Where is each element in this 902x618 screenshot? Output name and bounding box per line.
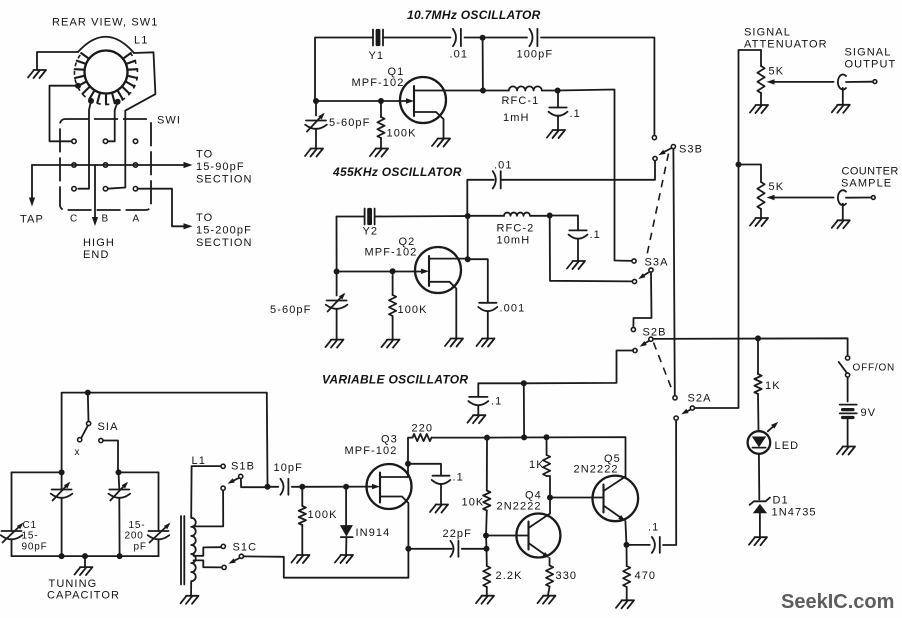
linkage S3B-S3A dashed [647, 154, 669, 258]
wire Q3 source [380, 497, 408, 550]
ground 2.2K [476, 596, 494, 604]
svg-text:LED: LED [775, 440, 800, 452]
svg-text:10mH: 10mH [497, 235, 531, 247]
capacitor 10pF [268, 486, 279, 488]
svg-text:.01: .01 [494, 160, 513, 172]
wire L1 bottom to ground [190, 581, 192, 595]
svg-text:100pF: 100pF [517, 49, 554, 61]
wire TAP down [31, 165, 33, 200]
ground 100K (10.7MHz) [370, 149, 388, 157]
svg-text:15-: 15- [22, 531, 39, 542]
svg-text:5K: 5K [769, 181, 785, 193]
wire Q2 gate row [337, 217, 424, 272]
ground battery [837, 447, 855, 455]
svg-text:9V: 9V [861, 407, 877, 419]
svg-text:SECTION: SECTION [196, 237, 253, 249]
wire Q4 base [486, 535, 529, 537]
svg-text:REAR VIEW, SW1: REAR VIEW, SW1 [52, 17, 158, 29]
junction 10K top [484, 435, 490, 441]
junction attenuator rail [736, 162, 742, 168]
svg-text:HIGH: HIGH [83, 237, 115, 249]
svg-text:SIGNAL: SIGNAL [744, 27, 791, 39]
wire Q5 base [550, 497, 604, 499]
ground COUNTER SAMPLE jack [832, 220, 850, 228]
junction supply rail / 1K LED branch [755, 335, 761, 341]
ground L1 [181, 596, 199, 604]
svg-text:.1: .1 [491, 396, 502, 408]
wire Y2 row [337, 216, 468, 260]
svg-text:OUTPUT: OUTPUT [845, 59, 897, 71]
junction drain row / top rail branch [480, 88, 486, 94]
svg-text:S2B: S2B [643, 327, 667, 339]
svg-text:455KHz OSCILLATOR: 455KHz OSCILLATOR [332, 165, 462, 179]
Q1 gate arrow [406, 98, 414, 103]
svg-text:CAPACITOR: CAPACITOR [47, 590, 120, 602]
capacitor 15-200pF (right edge) [158, 472, 160, 531]
svg-text:Q3: Q3 [381, 434, 398, 446]
ground .001 [477, 339, 495, 347]
svg-text:.1: .1 [648, 522, 659, 534]
junction 10pF node [265, 484, 271, 490]
wire Q2 source to ground [429, 282, 456, 338]
capacitor 22pF [408, 548, 451, 550]
arrow to 15-90pF section [184, 162, 193, 168]
svg-text:D1: D1 [773, 495, 789, 507]
junction Q4 base node [483, 533, 489, 539]
ground SIGNAL OUTPUT jack [832, 105, 850, 113]
wire Q1 drain [414, 90, 483, 92]
junction IN914 [343, 484, 349, 490]
potentiometer 5K (signal) [760, 50, 762, 66]
wire S2B pivot to battery rail [653, 338, 848, 356]
switch S3B [652, 136, 656, 140]
wire L1 tap3 to S1C contact [194, 560, 222, 567]
battery 9V [847, 377, 849, 401]
ground 100K (455KHz) [382, 340, 400, 348]
wire Q1 gate row [315, 100, 408, 102]
svg-text:1K: 1K [765, 380, 781, 392]
svg-text:10K: 10K [462, 497, 485, 509]
switch box SW1 outline [60, 119, 151, 210]
junction bottom mid [82, 553, 88, 559]
Q3 gate arrow [372, 484, 380, 489]
svg-text:2N2222: 2N2222 [497, 501, 542, 513]
junction bottom right [117, 553, 123, 559]
Q5 collector [604, 477, 626, 492]
junction toroid tap3 [115, 99, 121, 105]
svg-text:15-90pF: 15-90pF [196, 161, 245, 173]
ground Q1 source [432, 139, 450, 147]
ground .1 (455KHz) [567, 261, 585, 269]
svg-text:x: x [75, 447, 81, 458]
svg-text:TAP: TAP [20, 214, 44, 226]
svg-text:SAMPLE: SAMPLE [841, 178, 892, 190]
wire S1C pivot feedback to Q3 source [243, 552, 408, 578]
wire tank top rail [62, 393, 268, 485]
svg-text:200: 200 [125, 531, 144, 542]
wire tank bottom rail [12, 555, 159, 557]
crystal Y2 [364, 209, 366, 225]
svg-text:1N4735: 1N4735 [772, 507, 817, 519]
junction 22pF node [484, 546, 490, 552]
capacitor .01 (10.7MHz) [453, 29, 456, 46]
resistor 100K (VFO) [301, 487, 303, 506]
wire S2A lower contact to Q5 output cap [663, 420, 676, 545]
svg-text:TO: TO [196, 212, 213, 224]
junction Q1 gate / 5-60pF [313, 98, 319, 104]
linkage S2B-S2A dashed [654, 343, 673, 392]
wire S2A pivot to attenuator rail [694, 50, 761, 408]
inductor RFC-2 10mH [468, 215, 504, 217]
junction Q4 collector / Q5 base [547, 495, 553, 501]
wire S3B pivot to S2A upper contact [673, 149, 674, 396]
svg-text:TUNING: TUNING [49, 578, 98, 590]
transistor Q3 MPF-102 [367, 464, 412, 509]
inductor L1 (VFO) [180, 516, 182, 585]
junction tank top / S1A [85, 390, 91, 396]
svg-text:100K: 100K [398, 304, 428, 316]
svg-text:470: 470 [635, 570, 657, 582]
svg-text:Y2: Y2 [363, 226, 379, 238]
ground .1 VFO supply [468, 415, 486, 423]
junction 100K VFO [299, 484, 305, 490]
transistor Q1 MPF-102 [400, 77, 446, 123]
resistor 220 [413, 434, 432, 441]
svg-text:1K: 1K [529, 459, 545, 471]
capacitor .1 (10.7MHz bypass) [557, 91, 559, 108]
junction toroid tap2 [88, 98, 94, 104]
junction Y2 row / .01 branch [465, 213, 471, 219]
capacitor .1 (Q3 drain) [408, 464, 441, 476]
svg-text:SECTION: SECTION [196, 174, 253, 186]
junction Q1 gate / 100K [378, 98, 384, 104]
ground .1 (10.7MHz) [547, 130, 565, 138]
svg-text:S2A: S2A [688, 393, 712, 405]
capacitor 100pF [529, 29, 532, 46]
junction mid rail left [59, 469, 65, 475]
wire toroid tap to SW1 C row1 [50, 86, 79, 142]
ground Q2 source [445, 339, 463, 347]
wire supply row to amp rail [523, 383, 525, 437]
svg-text:.01: .01 [450, 49, 469, 61]
ground tank [84, 556, 86, 567]
svg-text:22pF: 22pF [443, 528, 472, 540]
svg-text:15-: 15- [129, 520, 146, 531]
transistor Q4 2N2222 [516, 514, 560, 558]
junction Q2 gate / 100K [390, 268, 396, 274]
wire A row3 to 15-200pF arrow [138, 189, 185, 227]
svg-text:VARIABLE OSCILLATOR: VARIABLE OSCILLATOR [322, 373, 468, 387]
wire S2B lower contact to VFO supply [478, 351, 633, 397]
wire top rail 10.7MHz [315, 38, 654, 136]
SW1 contacts grid [72, 139, 76, 143]
wire tank mid rail left [12, 471, 62, 473]
inductor L1 toroid [74, 37, 137, 105]
switch S2B [631, 327, 635, 331]
variable capacitor section A (x=62) [61, 472, 63, 489]
resistor 2.2K [486, 549, 488, 566]
ground D1 [749, 537, 767, 545]
junction RFC-1 / .1 branch [555, 88, 561, 94]
svg-text:RFC-1: RFC-1 [502, 95, 540, 107]
resistor 470 [626, 545, 628, 566]
wire HIGH END down [94, 165, 96, 219]
jack SIGNAL OUTPUT [838, 75, 846, 90]
svg-text:15-200pF: 15-200pF [196, 225, 252, 237]
ground 5K signal pot [750, 105, 768, 113]
ground 5-60pF (455KHz) [326, 340, 344, 348]
transistor Q2 MPF-102 [415, 247, 461, 293]
svg-text:10pF: 10pF [274, 462, 303, 474]
wire toroid left to ground [37, 52, 78, 69]
arrow HIGH END [92, 217, 98, 226]
wire toroid right lead to SW1 B row3 [108, 52, 156, 188]
arrow to 15-200pF section [184, 223, 193, 229]
svg-text:END: END [83, 249, 110, 261]
transistor Q5 2N2222 [593, 476, 639, 522]
svg-text:220: 220 [412, 423, 434, 435]
capacitor .001 [468, 259, 488, 303]
switch S3A [632, 259, 636, 263]
variable capacitor section B (x=119.6) [118, 472, 121, 489]
junction Q2 gate / 5-60pF [334, 269, 340, 275]
wire RFC-1 output to S3A line [558, 90, 632, 261]
wire amplifier rail [487, 437, 626, 476]
svg-text:COUNTER: COUNTER [842, 166, 899, 178]
svg-text:MPF-102: MPF-102 [345, 445, 398, 457]
svg-text:100K: 100K [387, 128, 417, 140]
svg-text:5-60pF: 5-60pF [270, 304, 311, 316]
svg-text:5K: 5K [769, 66, 785, 78]
svg-text:.1: .1 [570, 108, 581, 120]
junction bottom left [59, 553, 65, 559]
wire Q2 drain [429, 258, 468, 260]
resistor 10K [486, 438, 488, 491]
ground 5K counter pot [750, 218, 768, 226]
Q4 collector [529, 498, 551, 529]
resistor 1K (LED) [757, 338, 759, 374]
ground IN914 [335, 555, 353, 563]
wire LED to zener [758, 454, 760, 500]
wire Q3 gate row [302, 486, 374, 488]
svg-text:MPF-102: MPF-102 [352, 77, 405, 89]
wire base-22pF link [485, 536, 488, 549]
resistor 1K (Q4) [546, 437, 548, 455]
switch S2A [673, 396, 677, 400]
svg-text:IN914: IN914 [356, 527, 391, 539]
wire 455 output to S3A contact [550, 216, 633, 282]
ground 470 [616, 600, 634, 608]
svg-text:90pF: 90pF [22, 542, 48, 553]
wire L1 tap2 to S1C [194, 547, 222, 556]
wire Q1 source to ground [414, 112, 444, 138]
switch OFF/ON [846, 356, 850, 360]
Q5 emitter [604, 506, 624, 520]
svg-text:10.7MHz OSCILLATOR: 10.7MHz OSCILLATOR [407, 8, 541, 22]
svg-text:.001: .001 [500, 303, 526, 315]
svg-text:OFF/ON: OFF/ON [853, 363, 896, 374]
switch S1B [221, 464, 225, 468]
junction supply row [521, 380, 527, 386]
wire 455 output row .01 [467, 161, 655, 217]
capacitor .1 (455KHz bypass) [550, 216, 578, 231]
variable capacitor 5-60pF (455KHz) [336, 272, 338, 296]
junction Q3 source node [405, 546, 411, 552]
wire TAP row through contacts to 15-90pF arrow [32, 164, 185, 166]
svg-text:1mH: 1mH [503, 112, 530, 124]
wiper arrow 5K counter [772, 197, 834, 199]
svg-text:2N2222: 2N2222 [574, 464, 619, 476]
svg-text:A: A [133, 214, 140, 225]
ground 330 [538, 596, 556, 604]
junction rail-left [521, 434, 527, 440]
wire S1B contact to L1 tap1 [195, 490, 224, 526]
Q4 emitter [529, 543, 548, 557]
wire L1 top to S1B [191, 466, 221, 518]
junction Q5 emitter node [624, 542, 630, 548]
junction RFC-2 output [547, 213, 553, 219]
potentiometer 5K (counter) [739, 165, 762, 183]
switch S1A [87, 393, 90, 422]
jack COUNTER SAMPLE [838, 190, 846, 205]
svg-text:B: B [102, 214, 109, 225]
wiper arrow 5K signal [772, 81, 834, 83]
junction Q2 drain / .001 branch [465, 256, 471, 262]
svg-text:S3B: S3B [679, 144, 703, 156]
resistor 330 [546, 566, 553, 587]
svg-text:330: 330 [556, 570, 578, 582]
LED [748, 431, 771, 454]
zener diode D1 1N4735 [750, 498, 770, 505]
capacitor .01 (455KHz) [493, 171, 496, 188]
svg-text:pF: pF [134, 542, 147, 553]
resistor 100K (455KHz) [392, 271, 394, 295]
arrow TAP [29, 198, 35, 207]
junction rail-1K [544, 434, 550, 440]
wire S3A pivot to S2B upper contact [633, 272, 651, 327]
junction mid rail right [116, 469, 122, 475]
svg-text:SIGNAL: SIGNAL [845, 47, 892, 59]
svg-text:S3A: S3A [645, 257, 669, 269]
svg-text:L1: L1 [192, 455, 206, 467]
svg-text:Y1: Y1 [369, 50, 385, 62]
switch S1C [221, 544, 225, 548]
svg-text:S1B: S1B [231, 461, 255, 473]
variable capacitor 5-60pF (10.7MHz) [315, 101, 317, 116]
svg-text:SeekIC.com: SeekIC.com [781, 591, 894, 613]
crystal Y1 [372, 30, 374, 46]
ground 100K VFO [292, 555, 310, 563]
wire tank mid rail right [118, 471, 159, 473]
svg-text:C: C [70, 214, 78, 225]
svg-text:2.2K: 2.2K [496, 570, 523, 582]
wire toroid tap2 to SW1 C row3 [78, 101, 91, 189]
diode IN914 [345, 487, 347, 525]
resistor 100K (10.7MHz) [380, 101, 382, 117]
ground .1 Q3 [430, 505, 448, 513]
svg-text:5-60pF: 5-60pF [329, 117, 370, 129]
svg-text:100K: 100K [308, 509, 338, 521]
svg-text:ATTENUATOR: ATTENUATOR [744, 39, 828, 51]
capacitor .1 (output) [627, 544, 650, 546]
svg-text:RFC-2: RFC-2 [497, 223, 535, 235]
svg-text:S1C: S1C [233, 542, 258, 554]
svg-text:.1: .1 [590, 229, 601, 241]
wire toroid tap3 to SW1 B row1 [108, 102, 118, 142]
ground 5-60pF (10.7MHz) [305, 149, 323, 157]
junction top rail / drain branch [480, 35, 486, 41]
junction toroid tap1 [75, 83, 81, 89]
capacitor .1 (VFO supply) [469, 396, 487, 398]
junction Q3 drain / .1 branch [405, 461, 411, 467]
svg-text:SWI: SWI [157, 115, 181, 127]
wire Q3 drain to 220 [380, 438, 413, 477]
svg-text:L1: L1 [134, 35, 148, 47]
Q2 gate arrow [421, 269, 429, 274]
wire top rail to drain row [482, 38, 484, 91]
svg-text:TO: TO [196, 149, 213, 161]
svg-text:MPF-102: MPF-102 [365, 247, 418, 259]
inductor RFC-1 1mH [483, 90, 509, 92]
ground toroid-left [28, 70, 46, 78]
capacitor C1 15-90pF (left edge) [11, 472, 13, 531]
svg-text:C1: C1 [23, 520, 37, 531]
svg-text:.1: .1 [453, 472, 464, 484]
svg-text:SIA: SIA [98, 421, 119, 433]
